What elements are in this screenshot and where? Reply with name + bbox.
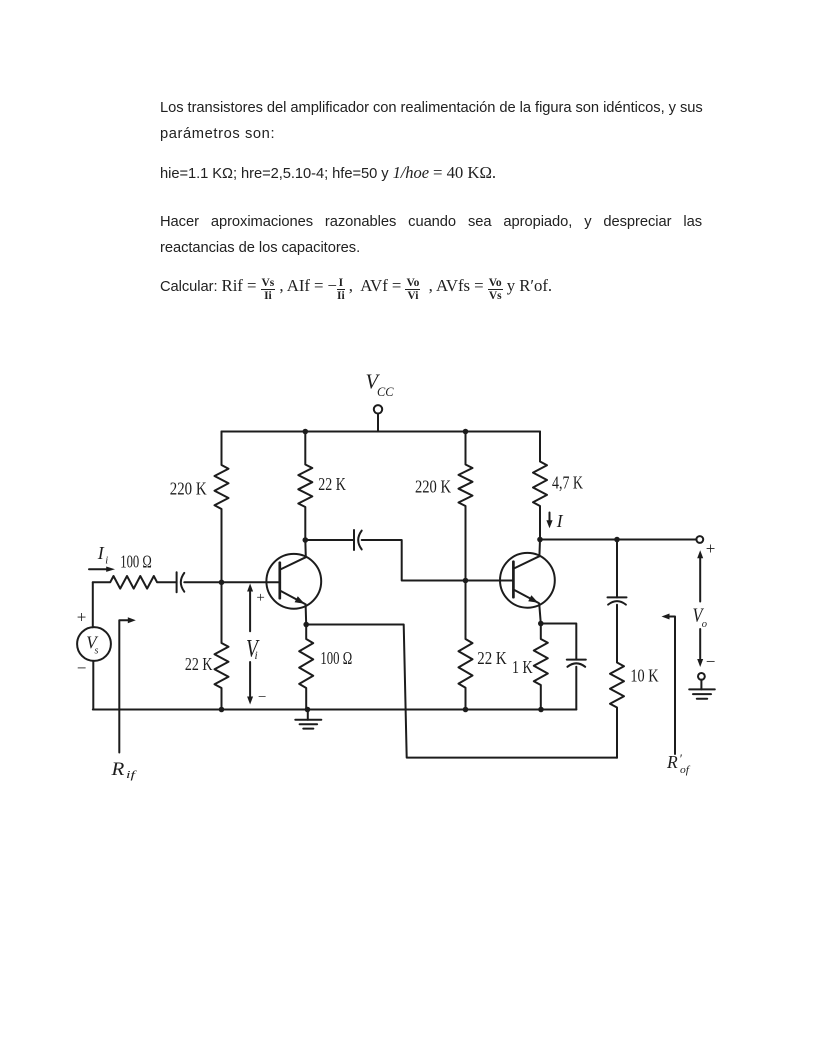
svg-text:s: s xyxy=(95,646,99,657)
wire main ground stub xyxy=(307,710,309,720)
arrow I (collector current) xyxy=(549,513,551,522)
capacitor C4 (output coupling) xyxy=(608,596,627,598)
wire top supply rail xyxy=(222,431,541,433)
capacitor C2 (interstage coupling) xyxy=(353,530,355,550)
svg-text:R: R xyxy=(110,759,124,780)
svg-text:220 K: 220 K xyxy=(170,479,207,499)
wire Vcc stub xyxy=(377,414,379,432)
node rail R6 xyxy=(219,707,225,713)
resistor R1 220K (first-stage upper bias) xyxy=(215,432,229,583)
resistor R3 220K (second-stage upper bias) xyxy=(459,432,473,581)
problem statement paragraph 1 xyxy=(160,95,702,148)
transistor Q1 (first stage) xyxy=(266,554,321,609)
wire feedback Q1 emitter to 10K bottom xyxy=(306,625,617,758)
node rail junction R2 xyxy=(303,429,309,435)
Vcc terminal xyxy=(374,405,382,413)
node Q2 base junction xyxy=(463,578,469,584)
wire source left drop xyxy=(92,582,94,627)
terminal output + xyxy=(696,536,703,543)
node rail R7/ground xyxy=(305,707,311,713)
resistor R6 22K (first-stage lower bias) xyxy=(215,582,229,709)
svg-text:I: I xyxy=(97,543,105,563)
svg-text:o: o xyxy=(702,619,707,630)
ground main xyxy=(295,719,321,721)
svg-text:+: + xyxy=(77,607,87,626)
svg-text:CC: CC xyxy=(377,385,394,399)
node rail 22K second xyxy=(463,707,469,713)
svg-text:i: i xyxy=(105,556,108,567)
svg-text:10 K: 10 K xyxy=(630,665,658,685)
svg-text:of: of xyxy=(680,764,691,776)
node Q2 collector xyxy=(537,537,543,543)
node rail R9 xyxy=(538,707,544,713)
arrow Ii (input current direction) xyxy=(89,568,108,570)
svg-text:−: − xyxy=(258,690,266,706)
svg-text:−: − xyxy=(706,652,716,671)
wire bottom ground rail xyxy=(93,709,577,711)
svg-text:4,7 K: 4,7 K xyxy=(552,473,583,493)
node Q2 emitter xyxy=(538,621,544,627)
capacitor C3 (emitter bypass) xyxy=(567,659,586,661)
arrow Vi (input voltage, double headed) xyxy=(249,588,251,631)
svg-text:22 K: 22 K xyxy=(318,474,346,494)
svg-text:R: R xyxy=(666,752,678,772)
node output branch xyxy=(614,537,620,543)
source Vs (signal generator) xyxy=(77,627,111,661)
resistor R2 22K (first-stage collector) xyxy=(298,432,312,541)
resistor R8 220K->22K (second-stage lower bias 22K) xyxy=(459,581,473,710)
resistor R5 100Ω (source, horizontal) xyxy=(93,576,177,589)
transistor Q2 (second stage) xyxy=(500,553,555,608)
wire Q2 collector to output terminal xyxy=(540,539,696,541)
resistor R4 4.7K (second-stage collector) xyxy=(533,432,547,540)
svg-text:+: + xyxy=(256,590,264,606)
wire Q1 collector xyxy=(304,540,307,557)
svg-text:22 K: 22 K xyxy=(185,654,213,674)
wire source to ground rail xyxy=(92,661,94,710)
svg-text:if: if xyxy=(126,769,138,781)
terminal output − xyxy=(698,673,705,680)
arrow Rif (input resistance looking in) xyxy=(119,620,131,752)
capacitor C1 (input coupling) xyxy=(176,572,178,592)
svg-text:100 Ω: 100 Ω xyxy=(120,552,152,572)
wire C3 to ground rail xyxy=(575,667,577,710)
wire Q2 emitter to C3 xyxy=(541,624,577,660)
wire C1 to Q1 base xyxy=(184,581,280,583)
resistor R10 10K (load) xyxy=(610,605,624,758)
ground output xyxy=(689,688,715,690)
arrow Vo (output voltage, double headed) xyxy=(699,555,701,602)
wire output branch drop xyxy=(616,540,618,598)
wire Q2 emitter xyxy=(539,603,541,623)
svg-text:+: + xyxy=(706,539,716,558)
wire Q1 emitter xyxy=(305,604,308,624)
node Q1 collector xyxy=(303,537,309,543)
svg-text:V: V xyxy=(246,634,260,663)
arrow R'of (output resistance looking in) xyxy=(666,617,675,755)
svg-text:220 K: 220 K xyxy=(415,477,451,497)
node rail junction R3 xyxy=(463,429,469,435)
wire Q1 collector to C2 xyxy=(305,539,354,541)
parameters line xyxy=(160,160,702,187)
resistor R9 1K (Q2 emitter) xyxy=(534,624,548,710)
svg-text:22 K: 22 K xyxy=(477,648,507,668)
wire output ground stub xyxy=(700,680,702,690)
node Q1 emitter xyxy=(303,622,309,628)
svg-text:1 K: 1 K xyxy=(512,657,533,677)
calculate line with fractions xyxy=(160,271,702,302)
problem statement paragraph 2 xyxy=(160,209,702,262)
svg-text:i: i xyxy=(255,650,258,662)
resistor R7 100Ω (Q1 emitter) xyxy=(299,625,313,710)
svg-text:I: I xyxy=(556,511,564,531)
node input bias junction (base node dot) xyxy=(219,580,225,586)
wire Q2 collector xyxy=(538,540,541,557)
svg-text:100 Ω: 100 Ω xyxy=(320,648,352,668)
wire C2 to Q2 base (step) xyxy=(362,540,514,581)
svg-text:−: − xyxy=(77,659,87,678)
